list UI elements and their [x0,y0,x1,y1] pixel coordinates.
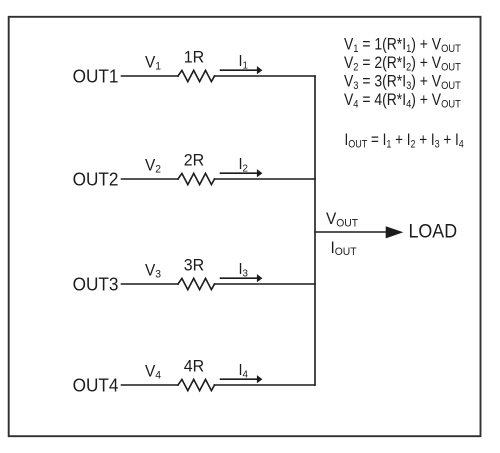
wire OUT3 to resistor R3 [122,283,179,285]
svg-text:I4: I4 [239,362,249,381]
current arrow I3 [221,274,263,282]
svg-text:IOUT = I1 + I2 + I3 + I4: IOUT = I1 + I2 + I3 + I4 [345,131,465,151]
svg-text:V2: V2 [145,157,161,176]
svg-text:I2: I2 [239,156,249,175]
svg-text:OUT1: OUT1 [73,66,119,87]
svg-text:LOAD: LOAD [409,220,458,242]
svg-text:V2 = 2(R*I2) + VOUT: V2 = 2(R*I2) + VOUT [344,54,461,73]
wire OUT4 to resistor R4 [122,384,179,386]
wire resistor R2 to bus [215,178,316,180]
svg-text:V4 = 4(R*I4) + VOUT: V4 = 4(R*I4) + VOUT [344,91,461,110]
svg-text:I1: I1 [239,53,249,72]
resistor R2 [178,173,215,184]
svg-text:V3: V3 [145,262,161,281]
resistor R1 [178,70,215,81]
bus node wire (vertical) [314,76,316,385]
svg-text:3R: 3R [184,256,205,275]
svg-text:V1 = 1(R*I1) + VOUT: V1 = 1(R*I1) + VOUT [344,36,461,55]
wire OUT2 to resistor R2 [122,178,179,180]
resistor R4 [178,379,215,390]
svg-text:I3: I3 [239,261,249,280]
svg-text:VOUT: VOUT [326,211,359,230]
svg-text:OUT3: OUT3 [73,274,119,295]
wire resistor R1 to bus [215,75,316,77]
svg-text:OUT4: OUT4 [73,375,119,396]
svg-text:V3 = 3(R*I3) + VOUT: V3 = 3(R*I3) + VOUT [344,73,461,92]
svg-text:IOUT: IOUT [331,239,358,258]
svg-text:OUT2: OUT2 [73,169,119,190]
svg-text:1R: 1R [184,48,205,67]
current arrow I1 [221,66,263,74]
current arrow I2 [221,169,263,177]
wire resistor R4 to bus [215,384,316,386]
wire resistor R3 to bus [215,283,316,285]
resistor R3 [178,278,215,289]
wire OUT1 to resistor R1 [122,75,179,77]
svg-text:2R: 2R [184,151,205,170]
svg-text:4R: 4R [184,357,205,376]
wire bus to load arrow [315,231,386,233]
svg-text:V1: V1 [145,54,161,73]
svg-text:V4: V4 [145,363,161,382]
current arrow I4 [221,375,263,383]
load arrowhead [386,226,404,238]
